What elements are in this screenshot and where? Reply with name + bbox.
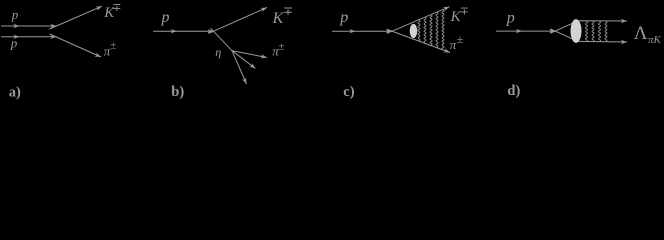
svg-text:b): b) [171, 84, 184, 100]
ladder rung 2 (d) [592, 21, 594, 41]
proton line 2 (a) end arrow [50, 35, 56, 39]
eta propagator (b) [211, 28, 232, 51]
svg-text:η: η [215, 45, 221, 59]
proton line (b) [153, 30, 214, 32]
pion line (c) end arrow [443, 48, 450, 54]
svg-text:a): a) [9, 84, 21, 100]
eta decay pion line 2 (b) [232, 51, 256, 69]
svg-text:p: p [339, 9, 348, 26]
proton line (b) mid arrow [171, 29, 177, 33]
pion line (a) [50, 34, 102, 57]
pion line (c) [387, 29, 450, 52]
proton line (c) [332, 30, 392, 32]
svg-text:±: ± [110, 39, 116, 51]
proton line (d) [496, 30, 556, 32]
ladder rung 3 (c) [430, 15, 432, 45]
pion line (a) end arrow [94, 52, 101, 59]
proton line 1 (a) [1, 25, 57, 27]
svg-text:∓: ∓ [112, 2, 121, 14]
eta decay pion line 3 (b) end arrow [242, 77, 249, 84]
ladder rung 1 (d) [586, 21, 588, 41]
ladder rung 4 (c) [436, 12, 438, 47]
ladder rung 1 (c) [418, 20, 420, 41]
eta decay pion line 1 (b) [232, 51, 267, 58]
kaon line (d) end arrow [621, 19, 627, 23]
svg-text:c): c) [343, 84, 354, 100]
proton line (d) end arrow [549, 29, 555, 33]
proton line (d) mid arrow [516, 29, 522, 33]
proton line 1 (a) end arrow [50, 24, 56, 28]
svg-text:∓: ∓ [283, 4, 293, 18]
eta decay pion line 3 (b) [232, 51, 247, 84]
ladder rung 3 (d) [599, 21, 601, 41]
svg-text:p: p [161, 9, 170, 26]
proton line (c) mid arrow [349, 29, 355, 33]
kaon line (c) end arrow [443, 5, 450, 11]
kaon line (a) [50, 6, 103, 29]
svg-text:p: p [506, 9, 515, 26]
pion line (d) [551, 29, 628, 42]
blob ellipse (c) [410, 24, 418, 38]
ladder rung 2 (c) [424, 18, 426, 43]
svg-text:p: p [11, 7, 19, 22]
eta decay pion line 2 (b) end arrow [249, 63, 257, 70]
svg-text:d): d) [507, 83, 520, 99]
kaon line (c) [387, 7, 450, 34]
proton line 2 (a) [1, 36, 57, 38]
svg-text:±: ± [279, 40, 285, 52]
kaon line (a) end arrow [95, 4, 102, 11]
proton line (b) end arrow [207, 29, 213, 33]
eta decay pion line 1 (b) end arrow [260, 54, 267, 60]
proton line 2 (a) mid arrow [13, 35, 19, 39]
ladder rung 4 (d) [605, 21, 607, 41]
svg-text:Λ: Λ [634, 23, 648, 44]
kaon line (d) [551, 21, 628, 33]
svg-text:∓: ∓ [460, 5, 469, 17]
proton line (c) end arrow [386, 29, 392, 33]
svg-text:πK: πK [648, 34, 662, 46]
svg-text:π: π [450, 37, 457, 52]
kaon line (b) end arrow [260, 5, 267, 12]
pion line (d) end arrow [621, 40, 627, 44]
kaon line (b) [209, 8, 268, 34]
blob ellipse (d) [571, 19, 582, 43]
svg-text:±: ± [457, 32, 464, 46]
proton line 1 (a) mid arrow [13, 24, 19, 28]
ladder rung 5 (c) [442, 10, 444, 50]
